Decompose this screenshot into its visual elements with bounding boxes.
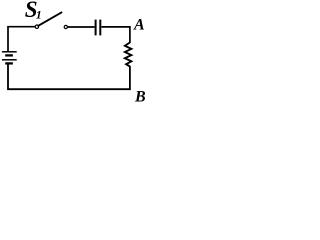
svg-text:A: A <box>133 17 145 34</box>
resistor <box>125 43 131 67</box>
switch S1 right contact <box>64 25 67 28</box>
wire: capacitor to top-right corner down to resistor, node A <box>101 27 129 43</box>
battery cell 1 negative plate (short thick) <box>5 54 13 56</box>
wire: switch right contact to capacitor <box>68 26 95 28</box>
wire: resistor to bottom-right corner (node B) to bottom-left up to battery bottom <box>8 65 130 90</box>
svg-text:B: B <box>134 89 146 106</box>
capacitor left plate <box>95 20 97 36</box>
battery cell 2 negative plate (short thick) <box>5 62 13 64</box>
wire: battery top to top-left corner to switch left contact <box>8 27 35 52</box>
switch S1 left contact <box>35 25 38 28</box>
capacitor right plate <box>99 20 101 36</box>
switch S1 blade (open) <box>38 12 61 25</box>
battery cell 2 positive plate (long) <box>2 59 17 61</box>
svg-text:1: 1 <box>36 7 42 21</box>
battery cell 1 positive plate (long) <box>2 51 17 53</box>
label S1 <box>25 0 42 22</box>
